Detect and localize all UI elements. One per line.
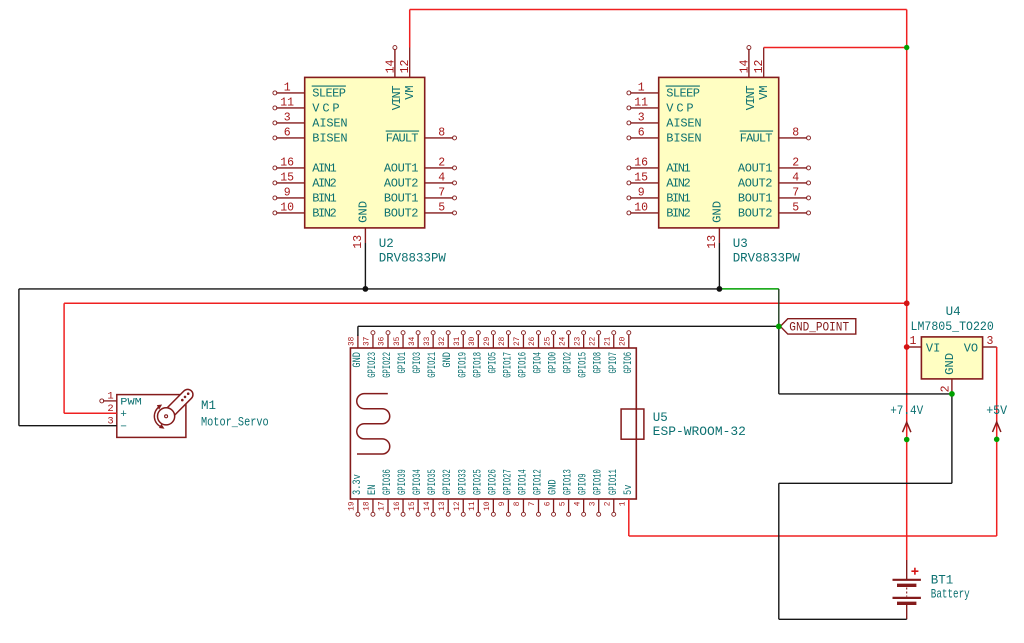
svg-text:BOUT1: BOUT1	[384, 192, 419, 206]
svg-text:AISEN: AISEN	[666, 117, 701, 131]
svg-text:1: 1	[620, 501, 628, 506]
svg-text:21: 21	[604, 336, 612, 346]
svg-text:8: 8	[792, 127, 799, 140]
svg-text:GPIO12: GPIO12	[533, 469, 545, 495]
svg-text:2: 2	[792, 157, 799, 170]
svg-text:GND: GND	[356, 201, 370, 223]
svg-text:GPIO18: GPIO18	[472, 352, 484, 378]
svg-text:GND_POINT: GND_POINT	[789, 320, 849, 335]
svg-text:10: 10	[280, 202, 294, 215]
svg-text:8: 8	[514, 501, 522, 506]
svg-text:SLEEP: SLEEP	[312, 87, 346, 101]
svg-text:2: 2	[438, 157, 445, 170]
svg-text:EN: EN	[367, 485, 379, 495]
svg-text:BOUT2: BOUT2	[384, 207, 419, 221]
svg-text:23: 23	[574, 336, 582, 346]
svg-text:13: 13	[439, 501, 447, 511]
svg-text:AIN2: AIN2	[666, 177, 690, 191]
svg-text:GPIO34: GPIO34	[412, 469, 424, 495]
svg-text:VI: VI	[926, 342, 940, 356]
svg-text:9: 9	[638, 187, 645, 200]
svg-text:U5: U5	[653, 411, 668, 425]
svg-text:AOUT1: AOUT1	[738, 162, 773, 176]
svg-text:+5V: +5V	[986, 404, 1007, 418]
svg-text:ESP-WROOM-32: ESP-WROOM-32	[653, 425, 746, 439]
svg-text:14: 14	[738, 59, 751, 73]
svg-text:VCP: VCP	[312, 102, 339, 116]
svg-text:24: 24	[559, 336, 567, 346]
svg-text:38: 38	[349, 336, 357, 346]
svg-text:GPIO14: GPIO14	[517, 469, 529, 495]
svg-text:+: +	[120, 409, 127, 421]
svg-text:GPIO0: GPIO0	[548, 352, 560, 374]
svg-text:GPIO3: GPIO3	[412, 352, 424, 374]
svg-text:28: 28	[499, 336, 507, 346]
svg-text:4: 4	[792, 172, 799, 185]
svg-text:PWM: PWM	[120, 397, 142, 409]
svg-text:17: 17	[379, 501, 387, 511]
svg-text:35: 35	[394, 336, 402, 346]
svg-text:GPIO7: GPIO7	[608, 352, 620, 374]
svg-text:7: 7	[792, 187, 799, 200]
svg-text:AOUT2: AOUT2	[738, 177, 773, 191]
svg-text:3: 3	[589, 501, 597, 506]
svg-text:18: 18	[364, 501, 372, 511]
svg-text:10: 10	[634, 202, 648, 215]
svg-text:VM: VM	[757, 85, 771, 99]
svg-text:VINT: VINT	[744, 85, 758, 110]
svg-text:GPIO4: GPIO4	[533, 352, 545, 374]
svg-text:BIN2: BIN2	[666, 207, 690, 221]
svg-text:6: 6	[544, 501, 552, 506]
svg-text:VCP: VCP	[666, 102, 693, 116]
svg-text:FAULT: FAULT	[740, 132, 773, 146]
svg-text:5v: 5v	[623, 484, 635, 495]
svg-text:13: 13	[352, 235, 365, 249]
svg-text:33: 33	[424, 336, 432, 346]
svg-text:GND: GND	[442, 352, 454, 368]
svg-text:10: 10	[484, 501, 492, 511]
svg-text:25: 25	[544, 336, 552, 346]
svg-text:BISEN: BISEN	[666, 132, 701, 146]
svg-text:GPIO10: GPIO10	[593, 469, 605, 495]
svg-text:M1: M1	[201, 399, 216, 413]
svg-text:6: 6	[638, 127, 645, 140]
svg-text:U3: U3	[733, 237, 748, 251]
svg-text:GPIO25: GPIO25	[472, 469, 484, 495]
svg-text:GND: GND	[710, 201, 724, 223]
svg-text:4: 4	[574, 501, 582, 506]
svg-text:GPIO39: GPIO39	[397, 469, 409, 495]
svg-text:11: 11	[280, 97, 294, 110]
svg-text:1: 1	[910, 335, 917, 348]
svg-text:FAULT: FAULT	[386, 132, 419, 146]
svg-text:GPIO19: GPIO19	[457, 352, 469, 378]
svg-text:AIN2: AIN2	[312, 177, 336, 191]
svg-text:15: 15	[409, 501, 417, 511]
svg-text:GND: GND	[943, 353, 957, 375]
svg-text:GPIO33: GPIO33	[457, 469, 469, 495]
svg-text:31: 31	[454, 336, 462, 346]
svg-text:14: 14	[424, 501, 432, 511]
svg-text:7: 7	[438, 187, 445, 200]
svg-text:3: 3	[284, 112, 291, 125]
svg-text:2: 2	[604, 501, 612, 506]
svg-text:AIN1: AIN1	[312, 162, 336, 176]
svg-text:GPIO32: GPIO32	[442, 469, 454, 495]
svg-text:GND: GND	[352, 352, 364, 368]
svg-text:DRV8833PW: DRV8833PW	[733, 252, 801, 266]
svg-text:GPIO35: GPIO35	[427, 469, 439, 495]
svg-text:1: 1	[284, 82, 291, 95]
svg-text:BIN1: BIN1	[312, 192, 336, 206]
svg-text:29: 29	[484, 336, 492, 346]
svg-text:30: 30	[469, 336, 477, 346]
svg-text:GPIO5: GPIO5	[487, 352, 499, 374]
svg-text:3: 3	[987, 335, 994, 348]
svg-text:Motor_Servo: Motor_Servo	[201, 416, 269, 430]
svg-text:GPIO23: GPIO23	[367, 352, 379, 378]
svg-text:AOUT2: AOUT2	[384, 177, 419, 191]
svg-text:AOUT1: AOUT1	[384, 162, 419, 176]
svg-text:GPIO8: GPIO8	[593, 352, 605, 374]
svg-text:15: 15	[634, 172, 648, 185]
svg-text:9: 9	[284, 187, 291, 200]
svg-text:GPIO15: GPIO15	[578, 352, 590, 378]
svg-text:7: 7	[529, 501, 537, 506]
svg-text:19: 19	[349, 501, 357, 511]
svg-text:BISEN: BISEN	[312, 132, 347, 146]
svg-text:1: 1	[638, 82, 645, 95]
svg-text:Battery: Battery	[931, 588, 970, 602]
svg-text:BOUT1: BOUT1	[738, 192, 773, 206]
svg-text:11: 11	[634, 97, 648, 110]
svg-text:4: 4	[438, 172, 445, 185]
svg-text:GPIO21: GPIO21	[427, 352, 439, 378]
svg-text:6: 6	[284, 127, 291, 140]
svg-text:GPIO17: GPIO17	[502, 352, 514, 378]
svg-text:GPIO36: GPIO36	[382, 469, 394, 495]
svg-text:+7.4V: +7.4V	[890, 404, 923, 418]
svg-text:GND: GND	[548, 479, 560, 495]
svg-text:U4: U4	[946, 305, 961, 319]
svg-text:GPIO26: GPIO26	[487, 469, 499, 495]
svg-text:20: 20	[620, 336, 628, 346]
svg-text:GPIO22: GPIO22	[382, 352, 394, 378]
svg-text:BIN2: BIN2	[312, 207, 336, 221]
svg-text:GPIO27: GPIO27	[502, 469, 514, 495]
svg-text:GPIO1: GPIO1	[397, 352, 409, 374]
svg-text:5: 5	[792, 202, 799, 215]
svg-text:16: 16	[394, 501, 402, 511]
svg-text:15: 15	[280, 172, 294, 185]
svg-text:DRV8833PW: DRV8833PW	[379, 252, 447, 266]
svg-text:32: 32	[439, 336, 447, 346]
svg-text:22: 22	[589, 336, 597, 346]
svg-text:GPIO2: GPIO2	[563, 352, 575, 374]
svg-text:14: 14	[384, 59, 397, 73]
svg-text:GPIO11: GPIO11	[608, 469, 620, 495]
svg-text:U2: U2	[379, 237, 394, 251]
svg-text:9: 9	[499, 501, 507, 506]
svg-text:BIN1: BIN1	[666, 192, 690, 206]
svg-text:GPIO9: GPIO9	[578, 474, 590, 496]
svg-text:3: 3	[638, 112, 645, 125]
svg-text:GPIO16: GPIO16	[517, 352, 529, 378]
svg-text:16: 16	[280, 157, 294, 170]
svg-text:1: 1	[107, 391, 113, 403]
svg-text:36: 36	[379, 336, 387, 346]
svg-text:BOUT2: BOUT2	[738, 207, 773, 221]
svg-text:VO: VO	[964, 342, 978, 356]
svg-text:11: 11	[469, 501, 477, 511]
svg-text:AISEN: AISEN	[312, 117, 347, 131]
svg-text:SLEEP: SLEEP	[666, 87, 700, 101]
svg-text:GPIO13: GPIO13	[563, 469, 575, 495]
svg-text:5: 5	[559, 501, 567, 506]
svg-text:VM: VM	[403, 85, 417, 99]
svg-text:AIN1: AIN1	[666, 162, 690, 176]
svg-text:16: 16	[634, 157, 648, 170]
svg-text:27: 27	[514, 336, 522, 346]
svg-text:26: 26	[529, 336, 537, 346]
svg-text:34: 34	[409, 336, 417, 346]
svg-text:13: 13	[706, 235, 719, 249]
svg-text:3.3v: 3.3v	[352, 474, 364, 495]
svg-text:BT1: BT1	[931, 574, 954, 588]
svg-text:LM7805_TO220: LM7805_TO220	[911, 320, 994, 334]
svg-text:5: 5	[438, 202, 445, 215]
svg-text:12: 12	[454, 501, 462, 511]
svg-text:37: 37	[364, 336, 372, 346]
svg-text:−: −	[120, 422, 127, 434]
svg-text:GPIO6: GPIO6	[623, 352, 635, 374]
svg-text:VINT: VINT	[390, 85, 404, 110]
svg-text:8: 8	[438, 127, 445, 140]
